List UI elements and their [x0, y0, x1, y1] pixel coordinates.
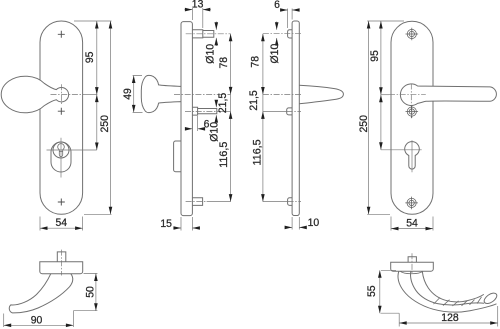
bottom bolt centerline / extension: [263, 201, 288, 203]
screw top (circled cross): [406, 28, 419, 41]
second bolt centerline / extension: [263, 110, 287, 112]
plate profile: [292, 21, 299, 216]
dimension 50 extensions: [73, 274, 97, 311]
spindle centerline: [411, 253, 413, 274]
top bolt sleeve: [192, 30, 213, 38]
svg-text:13: 13: [192, 0, 204, 11]
lever grip end cap: [482, 291, 498, 306]
knob axis centerline: [174, 93, 231, 95]
cylinder circle: [53, 142, 69, 158]
dimension 21,5 line: [262, 95, 264, 112]
svg-text:50: 50: [84, 286, 96, 298]
lever grip middle edge: [411, 271, 485, 305]
lever grip outer edge: [398, 271, 497, 312]
dimension Ø10 top (arrows outside): [215, 22, 217, 47]
svg-text:54: 54: [406, 218, 418, 230]
knob grip (top view curved): [9, 274, 72, 313]
dimension Ø10 (arrows outside): [276, 22, 278, 46]
dimension 15 line and arrows: [173, 227, 200, 229]
dimension 95 line: [380, 21, 382, 95]
dimension 6 line and arrows: [186, 128, 205, 130]
svg-text:49: 49: [122, 88, 134, 100]
lever boss centerlines: [389, 94, 426, 96]
dimension 250 line: [368, 21, 370, 214]
bottom bolt: [192, 198, 202, 206]
dimension 250 line: [110, 21, 112, 214]
dimension 116,5 line: [230, 111, 232, 201]
dimension 50 line: [95, 274, 97, 311]
dimension 13 extensions: [192, 8, 202, 28]
spindle stub: [408, 257, 416, 263]
neck under boss: [400, 271, 423, 274]
second bolt sleeve: [287, 108, 292, 115]
svg-text:Ø10: Ø10: [204, 44, 216, 64]
knob side view (mushroom): [141, 75, 181, 112]
lever handle (boss + arm): [400, 84, 496, 106]
cylinder bulge: [174, 141, 181, 172]
top extension line: [74, 20, 112, 22]
bottom bolt sleeve: [288, 198, 293, 206]
bottom extension line: [84, 213, 112, 215]
cylinder oval escutcheon: [51, 142, 71, 172]
lever handle side view: [299, 85, 343, 104]
dimension 21,5 line: [230, 94, 232, 111]
screw top (+): [58, 31, 65, 38]
second bolt sleeve and screw: [192, 107, 216, 115]
dimension 10 extensions: [292, 217, 299, 230]
svg-text:15: 15: [160, 218, 172, 230]
spindle stub: [57, 252, 66, 262]
screw bottom (circled cross): [405, 197, 418, 210]
grip section lines: [434, 297, 482, 306]
svg-text:95: 95: [369, 50, 381, 62]
extension line knob center to dimension line: [84, 94, 97, 96]
dimension 128 line: [399, 322, 498, 324]
svg-text:250: 250: [358, 115, 370, 132]
dimension knob-to-cylinder line (unlabeled): [96, 95, 98, 150]
svg-text:54: 54: [56, 217, 68, 229]
svg-text:55: 55: [366, 285, 378, 297]
dimension 54 extension lines: [40, 217, 83, 231]
screw middle (+): [58, 108, 65, 115]
dimension 49 extensions: [133, 76, 143, 113]
svg-text:10: 10: [308, 217, 320, 229]
cylinder centerlines: [47, 149, 97, 151]
bottom extension line: [367, 213, 390, 215]
spindle centerline: [61, 250, 63, 276]
svg-text:78: 78: [249, 56, 261, 68]
dimension lever-to-cylinder line (unlabeled): [380, 95, 382, 150]
dimension 116,5 line: [262, 111, 264, 201]
dimension 90 line: [4, 324, 74, 326]
dimension 54 extension lines: [391, 217, 433, 231]
svg-text:Ø10: Ø10: [269, 44, 281, 64]
svg-text:95: 95: [84, 52, 96, 64]
dimension 6 extensions: [288, 9, 293, 29]
svg-text:250: 250: [99, 115, 111, 132]
dimension 49 line: [133, 76, 135, 113]
dimension 15 extensions: [181, 217, 192, 231]
extension lever center to dimension line: [381, 94, 389, 96]
svg-text:116,5: 116,5: [252, 139, 264, 165]
svg-text:Ø10: Ø10: [208, 122, 220, 142]
backplate (stadium shape): [391, 21, 433, 214]
dimension 6 extension: [197, 116, 199, 131]
dimension 6 line and arrows: [280, 9, 299, 11]
svg-text:78: 78: [218, 57, 230, 69]
svg-text:6: 6: [274, 0, 280, 11]
dimension 90 extensions: [4, 311, 74, 327]
dimension 55 extensions: [381, 270, 400, 313]
cylinder centerlines: [381, 149, 422, 151]
knob base (boss): [40, 262, 83, 274]
backplate (stadium shape): [40, 21, 83, 214]
svg-text:116,5: 116,5: [218, 142, 230, 168]
screw under lever (circled cross): [406, 105, 419, 118]
lever axis centerline: [263, 94, 301, 96]
dimension 78 line: [262, 34, 264, 95]
top bolt centerline: [263, 33, 301, 35]
top bolt centerline: [186, 33, 231, 35]
knob (egg shape + neck + boss circle): [1, 76, 68, 113]
lever base (boss): [391, 262, 434, 271]
dimension 55 line: [379, 270, 381, 313]
dimension 13 line and arrows: [185, 9, 211, 11]
dimension 78 line: [230, 34, 232, 95]
dimension 128 extensions: [399, 306, 498, 327]
svg-text:21,5: 21,5: [248, 90, 260, 110]
svg-text:128: 128: [441, 312, 458, 324]
dimension 95 line: [96, 21, 98, 95]
lever grip inner edge: [422, 271, 484, 302]
svg-text:21,5: 21,5: [217, 93, 229, 113]
second bolt centerline: [185, 110, 217, 112]
dimension Ø10 second bolt (arrows outside): [215, 100, 217, 122]
screw bottom (+): [58, 199, 65, 206]
knob centerlines (dash-dot crosshair): [51, 94, 85, 96]
dimension 10 line and arrows: [285, 226, 307, 228]
dimension 54 line: [40, 227, 83, 229]
europrofile small cutout: [58, 144, 65, 157]
bottom bolt centerline: [186, 201, 207, 203]
europrofile cylinder cutout: [405, 142, 420, 169]
plate profile: [181, 22, 192, 216]
svg-text:90: 90: [31, 314, 43, 326]
dimension 54 line: [391, 228, 433, 230]
top bolt sleeve: [288, 30, 293, 38]
top extension line: [367, 20, 404, 22]
